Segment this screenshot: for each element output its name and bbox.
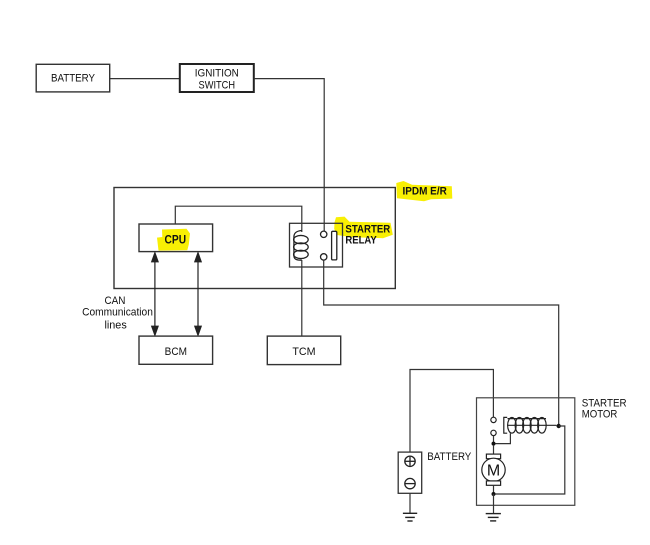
wire motor junction to ground (493, 494, 495, 514)
BCM box (139, 336, 213, 364)
relay coil (294, 231, 309, 261)
ignition switch S1 box (180, 64, 254, 92)
junction node (motor feed) (492, 442, 496, 446)
relay contact circle (top pin) (321, 231, 327, 237)
CAN Communication lines label (82, 295, 153, 331)
wire ignition switch to relay contact (right + down) (254, 79, 324, 232)
wire contact to junction (493, 436, 495, 444)
battery B2 negative terminal (405, 478, 415, 488)
motor M1 brush (bottom) (486, 481, 500, 485)
svg-text:BATTERY: BATTERY (427, 451, 471, 463)
wire relay coil to TCM (301, 260, 303, 336)
svg-text:CAN: CAN (105, 295, 126, 307)
svg-text:Communication: Communication (82, 306, 153, 318)
STARTER MOTOR label (582, 398, 627, 421)
battery B2 (bottom) box (398, 452, 422, 493)
solenoid coil L1 (504, 417, 557, 433)
svg-text:IGNITION: IGNITION (195, 68, 239, 80)
svg-text:SWITCH: SWITCH (199, 79, 236, 91)
svg-text:CPU: CPU (165, 234, 187, 246)
wire junction right and down to motor return (496, 426, 565, 494)
junction node (relay feed / solenoid) (557, 424, 561, 428)
relay contact circle (bottom pin) (321, 254, 327, 260)
battery B1 (top) box (36, 64, 110, 92)
wire battery to ignition switch (110, 78, 180, 80)
STARTER RELAY highlight (334, 217, 393, 239)
wire battery B2 to ground (409, 493, 411, 513)
wire CPU to relay coil (175, 206, 301, 232)
CAN arrow (left, CPU-BCM) (152, 253, 158, 335)
IPDM E/R highlight (396, 181, 452, 201)
svg-text:RELAY: RELAY (345, 234, 377, 246)
svg-text:IPDM E/R: IPDM E/R (403, 186, 447, 198)
wire motor to bottom junction (493, 485, 495, 494)
ground (battery B2) (403, 513, 417, 521)
battery B2 positive terminal (405, 456, 415, 466)
svg-text:TCM: TCM (292, 346, 315, 358)
motor M1 body (482, 458, 505, 481)
svg-text:BATTERY: BATTERY (51, 73, 95, 85)
starter motor box (477, 398, 575, 506)
wire solenoid left lead to junction (496, 433, 511, 443)
ground (starter motor) (486, 514, 501, 521)
svg-text:M: M (487, 463, 500, 480)
solenoid switch contact (bottom pin) (491, 430, 496, 435)
svg-text:lines: lines (104, 319, 127, 331)
CPU box (139, 224, 213, 252)
wire battery B2 up and over to starter motor (410, 370, 493, 453)
solenoid switch contact (top pin) (491, 417, 496, 422)
TCM box (267, 336, 340, 365)
svg-text:MOTOR: MOTOR (582, 409, 618, 421)
wire relay output to starter motor (324, 260, 559, 424)
junction node (motor return) (492, 492, 496, 496)
relay contact bar (332, 231, 337, 260)
wire junction to motor brush (493, 446, 495, 455)
starter relay K1 box (290, 223, 343, 267)
svg-text:BCM: BCM (165, 346, 187, 358)
CAN arrow (right, CPU-BCM) (195, 253, 201, 335)
motor M1 brush (top) (486, 454, 500, 459)
CPU highlight (157, 229, 190, 251)
IPDM E/R box (114, 188, 395, 289)
